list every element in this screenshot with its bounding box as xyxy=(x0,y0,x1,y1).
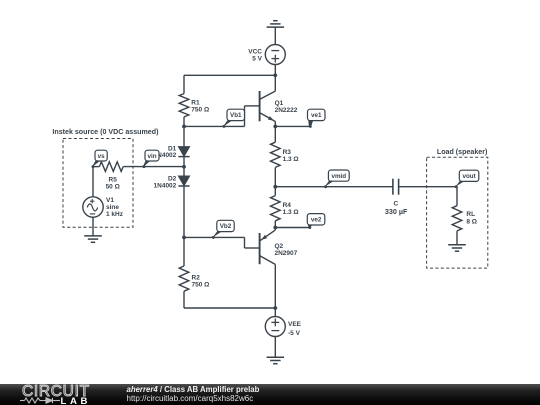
svg-text:vmid: vmid xyxy=(331,173,346,180)
label Q2 2N2907 xyxy=(275,243,298,257)
node junction ve2 xyxy=(273,226,277,230)
svg-text:vout: vout xyxy=(462,173,476,180)
label D1 xyxy=(168,145,177,152)
label R5 50 xyxy=(106,176,120,190)
diode D1 1N4002 xyxy=(178,126,189,166)
wire top rail xyxy=(184,74,275,76)
ground (VEE) xyxy=(267,357,285,363)
resistor R4 xyxy=(271,187,281,228)
resistor RL xyxy=(452,187,462,245)
svg-text:R3: R3 xyxy=(283,149,292,156)
label C 330uF xyxy=(385,201,408,216)
node flag vs xyxy=(92,150,108,168)
ground (V1) xyxy=(84,236,102,242)
node junction diode R2 xyxy=(182,236,186,240)
svg-text:R1: R1 xyxy=(191,100,200,107)
svg-text:ve1: ve1 xyxy=(311,112,322,119)
wire V1 down xyxy=(92,217,94,236)
node junction VEE rail xyxy=(273,306,277,310)
wire Q2 base xyxy=(184,237,260,248)
node junction VCC rail xyxy=(273,73,277,77)
label R1 750 xyxy=(191,100,209,114)
instek dashed box xyxy=(63,139,133,228)
wire ve1 xyxy=(275,125,310,127)
label Load speaker xyxy=(437,148,488,156)
label R3 1.3 xyxy=(283,149,299,163)
node flag Vb2 xyxy=(212,220,234,239)
wire vmid rail left xyxy=(275,186,393,188)
svg-text:750 Ω: 750 Ω xyxy=(191,107,209,114)
svg-text:Q1: Q1 xyxy=(275,100,284,107)
node junction vmid xyxy=(273,185,277,189)
svg-text:Instek source (0 VDC assumed): Instek source (0 VDC assumed) xyxy=(52,128,159,136)
label V1 sine 1kHz xyxy=(106,197,124,218)
svg-text:1.3 Ω: 1.3 Ω xyxy=(283,156,299,163)
ground (top, above VCC) xyxy=(267,21,285,45)
svg-text:RL: RL xyxy=(466,211,475,218)
node flag Vb1 xyxy=(223,109,245,128)
svg-text:Load (speaker): Load (speaker) xyxy=(437,148,488,156)
load dashed box xyxy=(427,157,488,268)
svg-text:1.3 Ω: 1.3 Ω xyxy=(283,209,299,216)
label D1 value xyxy=(154,152,177,159)
svg-text:50 Ω: 50 Ω xyxy=(106,183,120,190)
voltage source VCC 5V xyxy=(265,45,285,65)
label Q1 2N2222 xyxy=(275,100,298,114)
node flag ve1 xyxy=(308,109,326,128)
node flag ve2 xyxy=(307,214,325,229)
svg-text:750 Ω: 750 Ω xyxy=(192,282,210,289)
svg-text:VCC: VCC xyxy=(248,49,262,56)
node flag vmid xyxy=(324,170,349,188)
voltage source V1 sine xyxy=(83,197,103,217)
node flag vout xyxy=(455,170,479,188)
wire VEE to ground xyxy=(274,337,276,358)
wire bottom rail xyxy=(184,307,275,309)
label VEE -5V xyxy=(288,321,302,337)
svg-text:R5: R5 xyxy=(109,176,118,183)
ground (load) xyxy=(448,245,466,251)
svg-text:1 kHz: 1 kHz xyxy=(106,211,124,218)
svg-text:5 V: 5 V xyxy=(252,56,262,63)
resistor R2 xyxy=(179,237,189,308)
resistor R1 xyxy=(179,75,189,126)
svg-text:8 Ω: 8 Ω xyxy=(466,218,477,225)
label R4 1.3 xyxy=(283,202,299,216)
svg-text:vs: vs xyxy=(98,153,106,160)
label R2 750 xyxy=(192,275,210,289)
node junction vin xyxy=(182,165,186,169)
svg-text:VEE: VEE xyxy=(288,321,302,328)
wire cap to vout xyxy=(399,186,457,188)
svg-text:ve2: ve2 xyxy=(311,217,322,224)
wire VCC to rail xyxy=(274,65,276,76)
svg-text:vin: vin xyxy=(147,153,156,160)
capacitor C 330uF xyxy=(393,179,399,195)
svg-text:1N4002: 1N4002 xyxy=(154,182,177,189)
svg-text:2N2222: 2N2222 xyxy=(275,107,298,114)
CircuitLab logo xyxy=(22,384,102,405)
wire Q1 base xyxy=(184,106,260,127)
svg-text:-5 V: -5 V xyxy=(288,330,301,337)
svg-text:Q2: Q2 xyxy=(275,243,284,250)
wire ve2 xyxy=(275,227,310,229)
wire rail to VEE xyxy=(274,308,276,317)
svg-text:Vb1: Vb1 xyxy=(230,112,242,119)
wire V1 up xyxy=(92,167,94,197)
label Instek source xyxy=(52,128,159,136)
transistor Q1 2N2222 (NPN) xyxy=(260,75,276,126)
transistor Q2 2N2907 (PNP) xyxy=(260,228,276,309)
voltage source VEE -5V xyxy=(265,317,285,337)
svg-text:R2: R2 xyxy=(192,275,201,282)
resistor R5 xyxy=(93,162,184,172)
svg-text:2N2907: 2N2907 xyxy=(275,250,298,257)
svg-text:330 µF: 330 µF xyxy=(385,207,408,216)
node junction Q1 emitter xyxy=(273,125,277,129)
node flag vin xyxy=(142,150,159,168)
diode D2 1N4002 xyxy=(178,167,189,238)
label D2 xyxy=(154,176,177,190)
resistor R3 xyxy=(271,126,281,186)
svg-text:R4: R4 xyxy=(283,202,292,209)
label VCC 5V xyxy=(248,49,262,63)
label RL 8 xyxy=(466,211,477,225)
svg-text:Vb2: Vb2 xyxy=(220,223,232,230)
node junction R1 base-wire xyxy=(182,125,186,129)
